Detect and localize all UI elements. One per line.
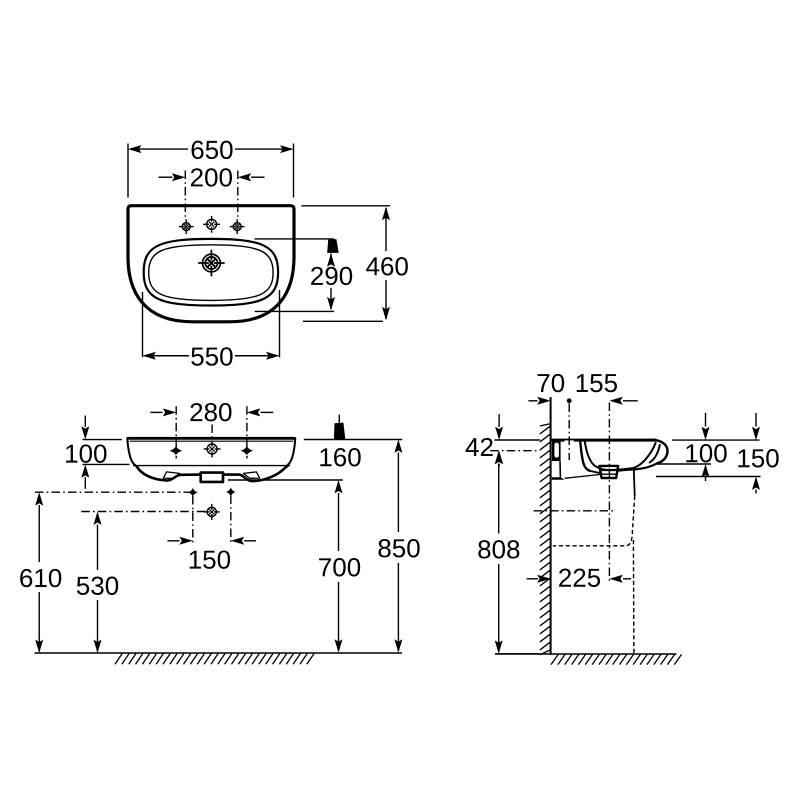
dimension 550 extension line right: [279, 290, 281, 357]
dimension 100 arrow down: [81, 426, 89, 439]
side outlet pipe solid: [633, 470, 636, 497]
dimension 200 arrow right: [238, 173, 251, 181]
tap position wedge symbol plan: [327, 239, 339, 253]
dimension 100 extension line bottom: [83, 463, 130, 465]
dimension 650 arrow right: [280, 145, 293, 153]
plan drain symbol: [203, 254, 221, 272]
dimension 290 arrow down: [327, 297, 335, 310]
dimension 280 arrow right: [247, 408, 260, 416]
dimension 200 extension dash-dot right: [237, 171, 239, 220]
dimension 42 arrow tail bottom: [498, 464, 500, 467]
dimension 700 arrow down: [335, 639, 343, 652]
dimension 290 line lower segment: [330, 288, 332, 309]
dimension 280 arrow tail right: [261, 411, 274, 413]
dimension 150 arrow right: [231, 537, 244, 545]
dimension 460 arrow down: [382, 307, 390, 320]
dimension 550 line left segment: [145, 355, 190, 357]
dimension 650 extension line left: [127, 144, 129, 198]
side drain box lower line: [601, 473, 616, 475]
side wall hatching: [540, 424, 551, 426]
dimension 42 arrow up: [495, 451, 503, 464]
side bowl underside right: [618, 463, 658, 470]
front bowl bottom extension line: [228, 479, 343, 481]
dimension 650 text: [192, 141, 204, 159]
dimension 100 arrow tail bottom: [84, 477, 86, 489]
dimension 850 line upper segment: [397, 453, 399, 533]
front fixing hole axis right dash-dot: [246, 406, 248, 458]
dimension 808 line upper segment: [498, 464, 500, 534]
front center axis dash-dot: [211, 425, 213, 442]
dimension 550 text: [191, 348, 203, 366]
bowl front reference line (290 bottom): [255, 310, 335, 312]
dimension 150 side arrow tail bottom: [755, 490, 757, 494]
dimension 42 extension line top: [494, 439, 540, 441]
plan view basin outline: [128, 206, 294, 322]
front view overflow slot left: [163, 472, 179, 478]
dimension 100 arrow tail top: [84, 416, 86, 427]
front fixing holes level dash-dot (610): [35, 491, 190, 493]
side bowl interior: [585, 442, 656, 471]
plan inner bowl outer oval: [144, 239, 278, 306]
side floor line: [495, 653, 677, 655]
dimension 610 arrow down: [35, 640, 43, 653]
dimension 700 arrow up: [335, 480, 343, 493]
dimension 530 line upper segment: [97, 525, 99, 571]
front view deck inner line: [130, 440, 294, 442]
tap position wedge symbol front: [334, 423, 345, 440]
dimension 460 arrow up: [382, 207, 390, 220]
dimension 70 arrow right-pointing: [537, 397, 550, 405]
dimension 70 arrow tail left: [528, 400, 537, 402]
dimension 280 text: [190, 403, 202, 421]
front view overflow slot right: [243, 472, 259, 478]
front fixing hole star right: [240, 446, 253, 455]
plan tap hole center: [207, 219, 217, 229]
front fixing hole star left: [170, 446, 183, 455]
dimension 100 side arrow down: [702, 427, 710, 440]
dimension 850 line lower segment: [397, 563, 399, 651]
dimension 460 line lower segment: [385, 280, 387, 319]
dimension 155 arrow tail right: [623, 400, 638, 402]
dimension 100 side arrow tail top: [705, 413, 707, 427]
dimension 290 text: [311, 267, 323, 285]
dimension 225 arrow tail left: [527, 578, 538, 580]
dimension 100 extension line top: [83, 439, 122, 441]
dimension 155 text: [577, 374, 588, 392]
side fixing axis dot terminator: [567, 398, 572, 403]
dimension 530 arrow down: [94, 640, 102, 653]
dimension 150 text: [190, 551, 201, 569]
dimension 550 arrow right: [266, 352, 279, 360]
dimension 280 arrow tail left: [150, 411, 162, 413]
dimension 150 side arrow tail top: [755, 413, 757, 427]
dimension 70 text: [538, 374, 550, 392]
dimension 280 arrow left: [163, 408, 176, 416]
dimension 460 extension line bottom: [303, 320, 383, 322]
dimension 650 line right segment: [235, 148, 292, 150]
dimension 150 side arrow up: [752, 477, 760, 490]
side deck slot white gap: [565, 440, 574, 442]
side drain level dash-dot (530): [534, 510, 615, 512]
dimension 808 arrow down: [495, 640, 503, 653]
side wall fixing block: [552, 442, 561, 462]
dimension 225 arrow right: [609, 575, 622, 583]
front drain level dash-dot (530): [81, 511, 206, 513]
dimension 200 arrow left: [172, 173, 185, 181]
dimension 42 arrow tail top: [498, 414, 500, 427]
plan inner bowl inner oval: [149, 245, 273, 301]
plan tap hole right: [233, 223, 241, 231]
dimension 225 text: [559, 569, 571, 587]
side bowl underside left: [590, 471, 601, 473]
front center tap symbol: [207, 444, 217, 454]
side fixing level dash-dot (42): [490, 450, 540, 452]
dimension 610 arrow up: [35, 492, 43, 505]
front view bowl underside: [137, 466, 288, 481]
side bowl rear outer wall: [580, 442, 590, 471]
side floor outlet pipe dashed: [632, 540, 635, 654]
dimension 610 line lower segment: [38, 592, 40, 652]
side underside slant line: [565, 474, 601, 478]
dimension 150 arrow tail left: [168, 540, 180, 542]
dimension 460 text: [366, 257, 379, 275]
front view left side edge: [127, 438, 135, 465]
side drain box: [599, 466, 618, 478]
dimension 610 text: [20, 569, 32, 587]
dimension 100 arrow up: [81, 464, 89, 477]
dimension 530 line lower segment: [97, 600, 99, 652]
side front beak outer: [652, 440, 668, 463]
dimension 100 side arrow up: [702, 464, 710, 477]
front rim top extension line right: [304, 439, 402, 441]
side rim top line: [552, 439, 656, 442]
overflow reference line (290 top): [255, 238, 334, 240]
dimension 225 arrow tail right: [623, 578, 631, 580]
dimension 290 arrow up: [327, 253, 335, 266]
dimension 530 arrow up: [94, 512, 102, 525]
dimension 700 line lower segment: [338, 582, 340, 651]
dimension 650 line left segment: [130, 148, 188, 150]
front drain fixing symbol: [207, 507, 216, 516]
dimension 200 text: [191, 168, 203, 186]
dimension 808 line lower segment: [498, 564, 500, 652]
dimension 155 arrow left-pointing: [609, 397, 622, 405]
dimension 42 arrow down: [495, 427, 503, 440]
front fixing hole axis left dash-dot: [175, 406, 177, 458]
side bowl bottom extension line (100): [655, 463, 711, 465]
dimension 808 arrow up: [495, 451, 503, 464]
front floor line: [35, 652, 403, 654]
side pillar right edge: [559, 461, 561, 477]
dimension 700 text: [319, 558, 331, 576]
side floor hatching: [551, 654, 558, 664]
dimension 700 line upper segment: [338, 493, 340, 551]
dimension 550 extension line left: [142, 292, 144, 357]
dimension 650 arrow left: [128, 145, 141, 153]
dimension 550 line right segment: [235, 355, 278, 357]
dimension 160 text: [320, 448, 331, 466]
dimension 150 side arrow down: [752, 427, 760, 440]
dimension 150 arrow left: [179, 537, 192, 545]
dimension 850 arrow down: [394, 639, 402, 652]
front fixing hole star lower-left: [188, 488, 198, 497]
dimension 290 line upper segment: [330, 253, 332, 262]
side bracket foot: [552, 477, 565, 480]
front view deck top edge: [127, 437, 295, 440]
dimension 530 text: [77, 577, 89, 595]
dimension 200 arrow tail right: [251, 176, 265, 178]
front floor hatching: [115, 654, 122, 665]
front view right side edge: [287, 438, 295, 465]
dimension 42 text: [466, 438, 479, 456]
dimension 200 arrow tail left: [159, 176, 173, 178]
side wall fixing slot white: [554, 443, 559, 458]
side center axis dash-dot: [608, 403, 610, 581]
dimension 100 side arrow tail bottom: [705, 477, 707, 481]
side outlet pipe dashed: [553, 496, 635, 546]
dimension 550 arrow left: [143, 352, 156, 360]
dimension 460 extension line top: [302, 205, 391, 207]
plan tap hole left: [182, 223, 190, 231]
dimension 150 arrow tail right: [244, 540, 256, 542]
side rim extension line right: [672, 439, 760, 441]
dimension 460 line upper segment: [385, 208, 387, 251]
dimension 225 arrow left: [537, 575, 550, 583]
dimension 808 extension line bottom: [495, 653, 540, 655]
dimension 100 side text: [686, 444, 697, 462]
dimension 850 text: [378, 539, 390, 557]
side drain box flange line: [601, 469, 617, 471]
dimension 100 text: [66, 445, 77, 463]
dimension 200 extension dash-dot left: [184, 171, 186, 220]
dimension 150 side text: [738, 449, 749, 467]
front view drain box: [201, 473, 223, 482]
dimension 610 line upper segment: [38, 505, 40, 562]
dimension 650 extension line right: [293, 144, 295, 198]
dimension 808 text: [478, 540, 490, 558]
front lower-right fixing axis dash-dot vertical: [230, 496, 232, 545]
side front beak inner: [650, 445, 660, 463]
front view rim bottom line: [133, 465, 290, 467]
side basin bottom extension line (150): [656, 476, 761, 478]
dimension 850 arrow up: [394, 440, 402, 453]
dimension 160 wedge stem: [338, 415, 340, 424]
side fixing axis dash-dot: [568, 404, 570, 461]
front lower-left fixing axis dash-dot vertical: [192, 496, 194, 544]
front fixing hole star lower-right: [226, 488, 236, 497]
side wall face line: [550, 397, 552, 655]
